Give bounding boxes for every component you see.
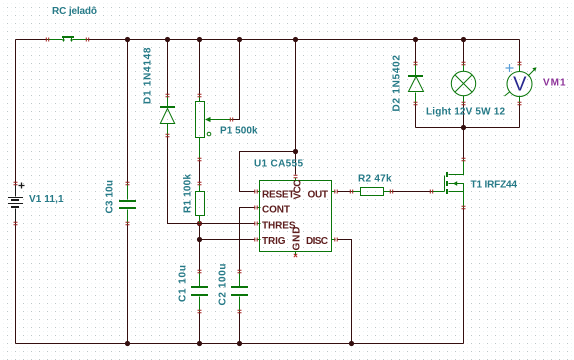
junction bottom C2 (237, 341, 242, 346)
svg-text:OUT: OUT (308, 190, 329, 201)
voltmeter VM circle (507, 72, 532, 97)
svg-text:TRIG: TRIG (262, 236, 286, 247)
junction top VCC (293, 37, 298, 42)
wire CONT to C2 (240, 208, 255, 272)
junction TRIG node (197, 237, 202, 242)
wire lamp bottom (463, 104, 465, 128)
svg-text:P1 500k: P1 500k (220, 126, 258, 137)
lamp cross (455, 75, 472, 92)
voltmeter VM leads (519, 64, 521, 104)
wire D1 branch top (167, 40, 169, 96)
potentiometer P1 body (196, 102, 205, 138)
wire source to bottom rail (463, 208, 465, 344)
transistor T1 pads (446, 172, 448, 177)
wire RESET elbow (240, 152, 296, 192)
switch SW arrow tips (62, 40, 537, 186)
wire P1 wiper riser (232, 40, 240, 120)
terminal U1 VCC (294, 175, 298, 177)
transistor T1 source link (449, 192, 464, 208)
terminal T1 source (462, 206, 466, 208)
lamp leads (463, 64, 465, 104)
terminal switch SW left (46, 38, 48, 42)
wire C3 branch top (127, 40, 129, 184)
terminal U1 THRES (255, 222, 257, 226)
terminal U1 GND unconnected (294, 254, 297, 257)
diode D1 triangle (160, 109, 174, 124)
potentiometer P1 hotspot (207, 132, 211, 136)
svg-text:R1 100k: R1 100k (183, 174, 194, 213)
svg-text:C3 10u: C3 10u (105, 180, 116, 214)
terminal VM1 bottom (518, 102, 522, 104)
junction lamp bottom (461, 125, 466, 130)
capacitor C3 plates (119, 200, 136, 202)
svg-text:C1 10u: C1 10u (178, 265, 189, 302)
voltmeter plus (506, 64, 514, 72)
capacitor C2 plates (231, 286, 248, 288)
U1 pin stubs left (257, 192, 261, 240)
wire C2 to bottom rail (239, 312, 241, 344)
wire C1 to bottom rail (199, 312, 201, 344)
svg-text:RESET: RESET (262, 190, 295, 201)
wire P1 to R1 (199, 160, 201, 184)
svg-text:V1 11,1: V1 11,1 (29, 194, 64, 205)
junction top C3 (125, 37, 130, 42)
svg-text:D1 1N4148: D1 1N4148 (143, 47, 154, 104)
transistor T1 body arrowhead (453, 181, 457, 186)
voltmeter VM arrowhead (532, 67, 536, 71)
wire D1 anode to THRES node (168, 136, 200, 224)
wire VM bottom (519, 104, 521, 128)
wire C3 branch bottom (127, 224, 129, 344)
junction VCC reset (293, 149, 298, 154)
junction top wiper (237, 37, 242, 42)
diode D2 triangle (409, 77, 424, 92)
op-amp U1 box (260, 181, 332, 252)
U1 pin names (262, 180, 328, 251)
terminal T1 drain (462, 158, 466, 160)
wire drain feed (463, 128, 465, 160)
wire left rail lower (15, 224, 17, 344)
U1 pin stub bottom (295, 252, 297, 256)
junction bottom C1 (197, 341, 202, 346)
svg-text:V: V (513, 74, 527, 96)
svg-text:T1 IRFZ44: T1 IRFZ44 (471, 180, 518, 191)
wire VCC riser (295, 40, 297, 152)
terminal U1 RESET (255, 190, 257, 194)
terminal R1 top (198, 182, 202, 184)
junction top D2 (413, 37, 418, 42)
svg-text:D2 1N5402: D2 1N5402 (392, 55, 403, 112)
terminal switch SW right (86, 38, 88, 42)
capacitor C1 plates (191, 286, 208, 288)
potentiometer P1 leads (199, 96, 201, 160)
terminal D2 anode (414, 102, 418, 104)
svg-text:Light 12V 5W 12: Light 12V 5W 12 (426, 107, 505, 118)
wire top rail (16, 39, 520, 41)
terminal C2 top (238, 270, 242, 272)
svg-text:VM1: VM1 (543, 78, 566, 89)
wire TRIG (200, 239, 255, 241)
terminal P1 bottom (198, 158, 202, 160)
junction top D1 (165, 37, 170, 42)
svg-text:C2 100u: C2 100u (218, 264, 229, 306)
potentiometer P1 arrowhead (205, 117, 211, 122)
crisp bars (62, 36, 448, 296)
terminal lamp bottom (462, 102, 466, 104)
switch SW leads (48, 39, 88, 41)
terminal U1 OUT (335, 190, 337, 194)
junction top P1 (197, 37, 202, 42)
svg-text:U1 CA555: U1 CA555 (254, 159, 303, 170)
terminal VM1 top (518, 62, 522, 64)
capacitor C1 leads (199, 272, 201, 312)
capacitor C2 leads (239, 272, 241, 312)
svg-text:VCC: VCC (293, 180, 304, 200)
junction top lamp (461, 37, 466, 42)
battery V1 plates (8, 197, 23, 208)
capacitor C3 leads (127, 184, 129, 224)
svg-text:R2 47k: R2 47k (358, 174, 392, 185)
svg-text:CONT: CONT (262, 205, 290, 216)
resistor R1 leads (199, 184, 201, 224)
voltmeter VM arrow line (505, 69, 536, 97)
wire bottom rail (16, 343, 464, 345)
terminal D1 cathode (166, 94, 170, 96)
terminal lamp top (462, 62, 466, 64)
svg-text:DISC: DISC (306, 236, 328, 247)
transistor T1 drain link (449, 160, 464, 175)
wire P1 branch top (199, 40, 201, 96)
terminal V1 plus (14, 182, 18, 184)
junction THRES node (197, 221, 202, 226)
diode D2 leads (415, 64, 417, 104)
wire lamp top (463, 40, 465, 64)
wire OUT to R2 (338, 191, 352, 193)
terminal D1 anode (166, 134, 170, 136)
wire D2 top (415, 40, 417, 64)
terminal U1 CONT (255, 206, 257, 210)
terminal R2 right (390, 190, 392, 194)
wire node B to C1 (199, 240, 201, 272)
diode D2 bar (408, 75, 423, 77)
terminal P1 top (198, 94, 202, 96)
terminal R2 left (350, 190, 352, 194)
wire VCC stub feed (295, 152, 297, 175)
terminal U1 DISC (335, 238, 337, 242)
switch SW bar (62, 36, 74, 38)
terminal P1 wiper (230, 118, 232, 122)
U1 pin stubs right (332, 192, 336, 240)
wire DISC drop (338, 240, 352, 344)
junction bottom DISC (349, 341, 354, 346)
terminal R1 bottom (198, 222, 202, 224)
battery V1 leads (16, 183, 25, 224)
wire left rail upper (15, 40, 17, 184)
transistor T1 body link (449, 184, 464, 192)
terminal C3 top (126, 182, 130, 184)
wire parallel group bottom (416, 127, 520, 129)
transistor T1 gate lead (432, 176, 445, 192)
wire node A to node B (199, 224, 201, 240)
wire VM top (519, 40, 521, 64)
svg-text:GND: GND (292, 227, 303, 251)
lamp circle (451, 71, 475, 95)
terminal V1 minus (14, 222, 18, 224)
diode D1 bar (160, 106, 175, 108)
wire R2 to gate (392, 191, 432, 193)
diode D1 leads (167, 96, 169, 136)
wire THRES (200, 223, 255, 225)
svg-text:RC jeladô: RC jeladô (52, 6, 97, 17)
terminal C3 bottom (126, 222, 130, 224)
terminal C1 bottom (198, 310, 202, 312)
potentiometer P1 wiper arrow (208, 119, 232, 121)
terminal C2 bottom (238, 310, 242, 312)
U1 pin stub top (295, 178, 297, 181)
resistor R1 body (196, 192, 205, 216)
resistor R2 body (361, 188, 384, 196)
wire D2 bottom (415, 104, 417, 128)
terminal D2 cathode (414, 62, 418, 64)
resistor R2 leads (352, 191, 392, 193)
labels teal (29, 6, 517, 306)
terminal U1 TRIG (255, 238, 257, 242)
terminal C1 top (198, 270, 202, 272)
switch SW posts (64, 38, 72, 41)
junction bottom C3 (125, 341, 130, 346)
terminal T1 gate (430, 190, 432, 194)
